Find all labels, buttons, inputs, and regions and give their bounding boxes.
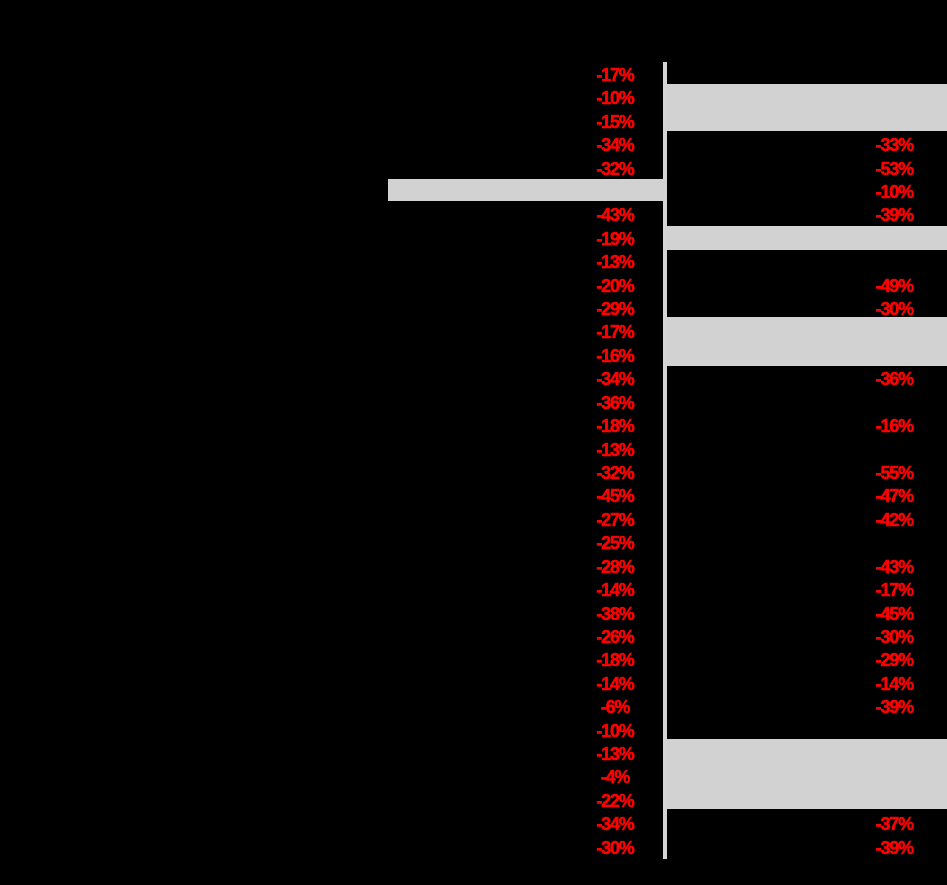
left label row 24 [573, 602, 657, 626]
right label row 19 [852, 484, 936, 508]
left label row 29 [573, 719, 657, 743]
left label row 3 [573, 110, 657, 134]
left label row 25 [573, 625, 657, 649]
left label row 27 [573, 672, 657, 696]
left label row 30 [573, 742, 657, 766]
highlight bar rows 30-32 [667, 739, 947, 809]
right label row 14 [852, 367, 936, 391]
left label row 28 [573, 695, 657, 719]
left label row 31 [573, 765, 657, 789]
left label row 13 [573, 344, 657, 368]
left label row 12 [573, 320, 657, 344]
highlight bar rows 12-13 [667, 317, 947, 366]
left data bar row 6 [388, 179, 667, 201]
left label row 23 [573, 578, 657, 602]
left label row 26 [573, 648, 657, 672]
right label row 34 [852, 836, 936, 860]
left label row 4 [573, 133, 657, 157]
right label row 28 [852, 695, 936, 719]
left label row 2 [573, 86, 657, 110]
left label row 18 [573, 461, 657, 485]
left label row 22 [573, 555, 657, 579]
left label row 34 [573, 836, 657, 860]
left label row 15 [573, 391, 657, 415]
right label row 25 [852, 625, 936, 649]
right label row 11 [852, 297, 936, 321]
left label row 5 [573, 157, 657, 181]
highlight bar row 8 [667, 226, 947, 250]
right label row 22 [852, 555, 936, 579]
right label row 10 [852, 274, 936, 298]
right label row 23 [852, 578, 936, 602]
left label row 1 [573, 63, 657, 87]
right label row 5 [852, 157, 936, 181]
left label row 32 [573, 789, 657, 813]
left label row 14 [573, 367, 657, 391]
left label row 21 [573, 531, 657, 555]
highlight bar rows 2-3 [667, 84, 947, 132]
right label row 20 [852, 508, 936, 532]
right label row 16 [852, 414, 936, 438]
left label row 9 [573, 250, 657, 274]
left label row 17 [573, 438, 657, 462]
right label row 18 [852, 461, 936, 485]
right label row 26 [852, 648, 936, 672]
left label row 8 [573, 227, 657, 251]
right label row 33 [852, 812, 936, 836]
right label row 27 [852, 672, 936, 696]
left label row 33 [573, 812, 657, 836]
right label row 7 [852, 203, 936, 227]
left label row 16 [573, 414, 657, 438]
left label row 10 [573, 274, 657, 298]
left label row 19 [573, 484, 657, 508]
right label row 24 [852, 602, 936, 626]
left label row 7 [573, 203, 657, 227]
right label row 6 [852, 180, 936, 204]
value axis line [663, 62, 667, 859]
left label row 20 [573, 508, 657, 532]
right label row 4 [852, 133, 936, 157]
left label row 11 [573, 297, 657, 321]
